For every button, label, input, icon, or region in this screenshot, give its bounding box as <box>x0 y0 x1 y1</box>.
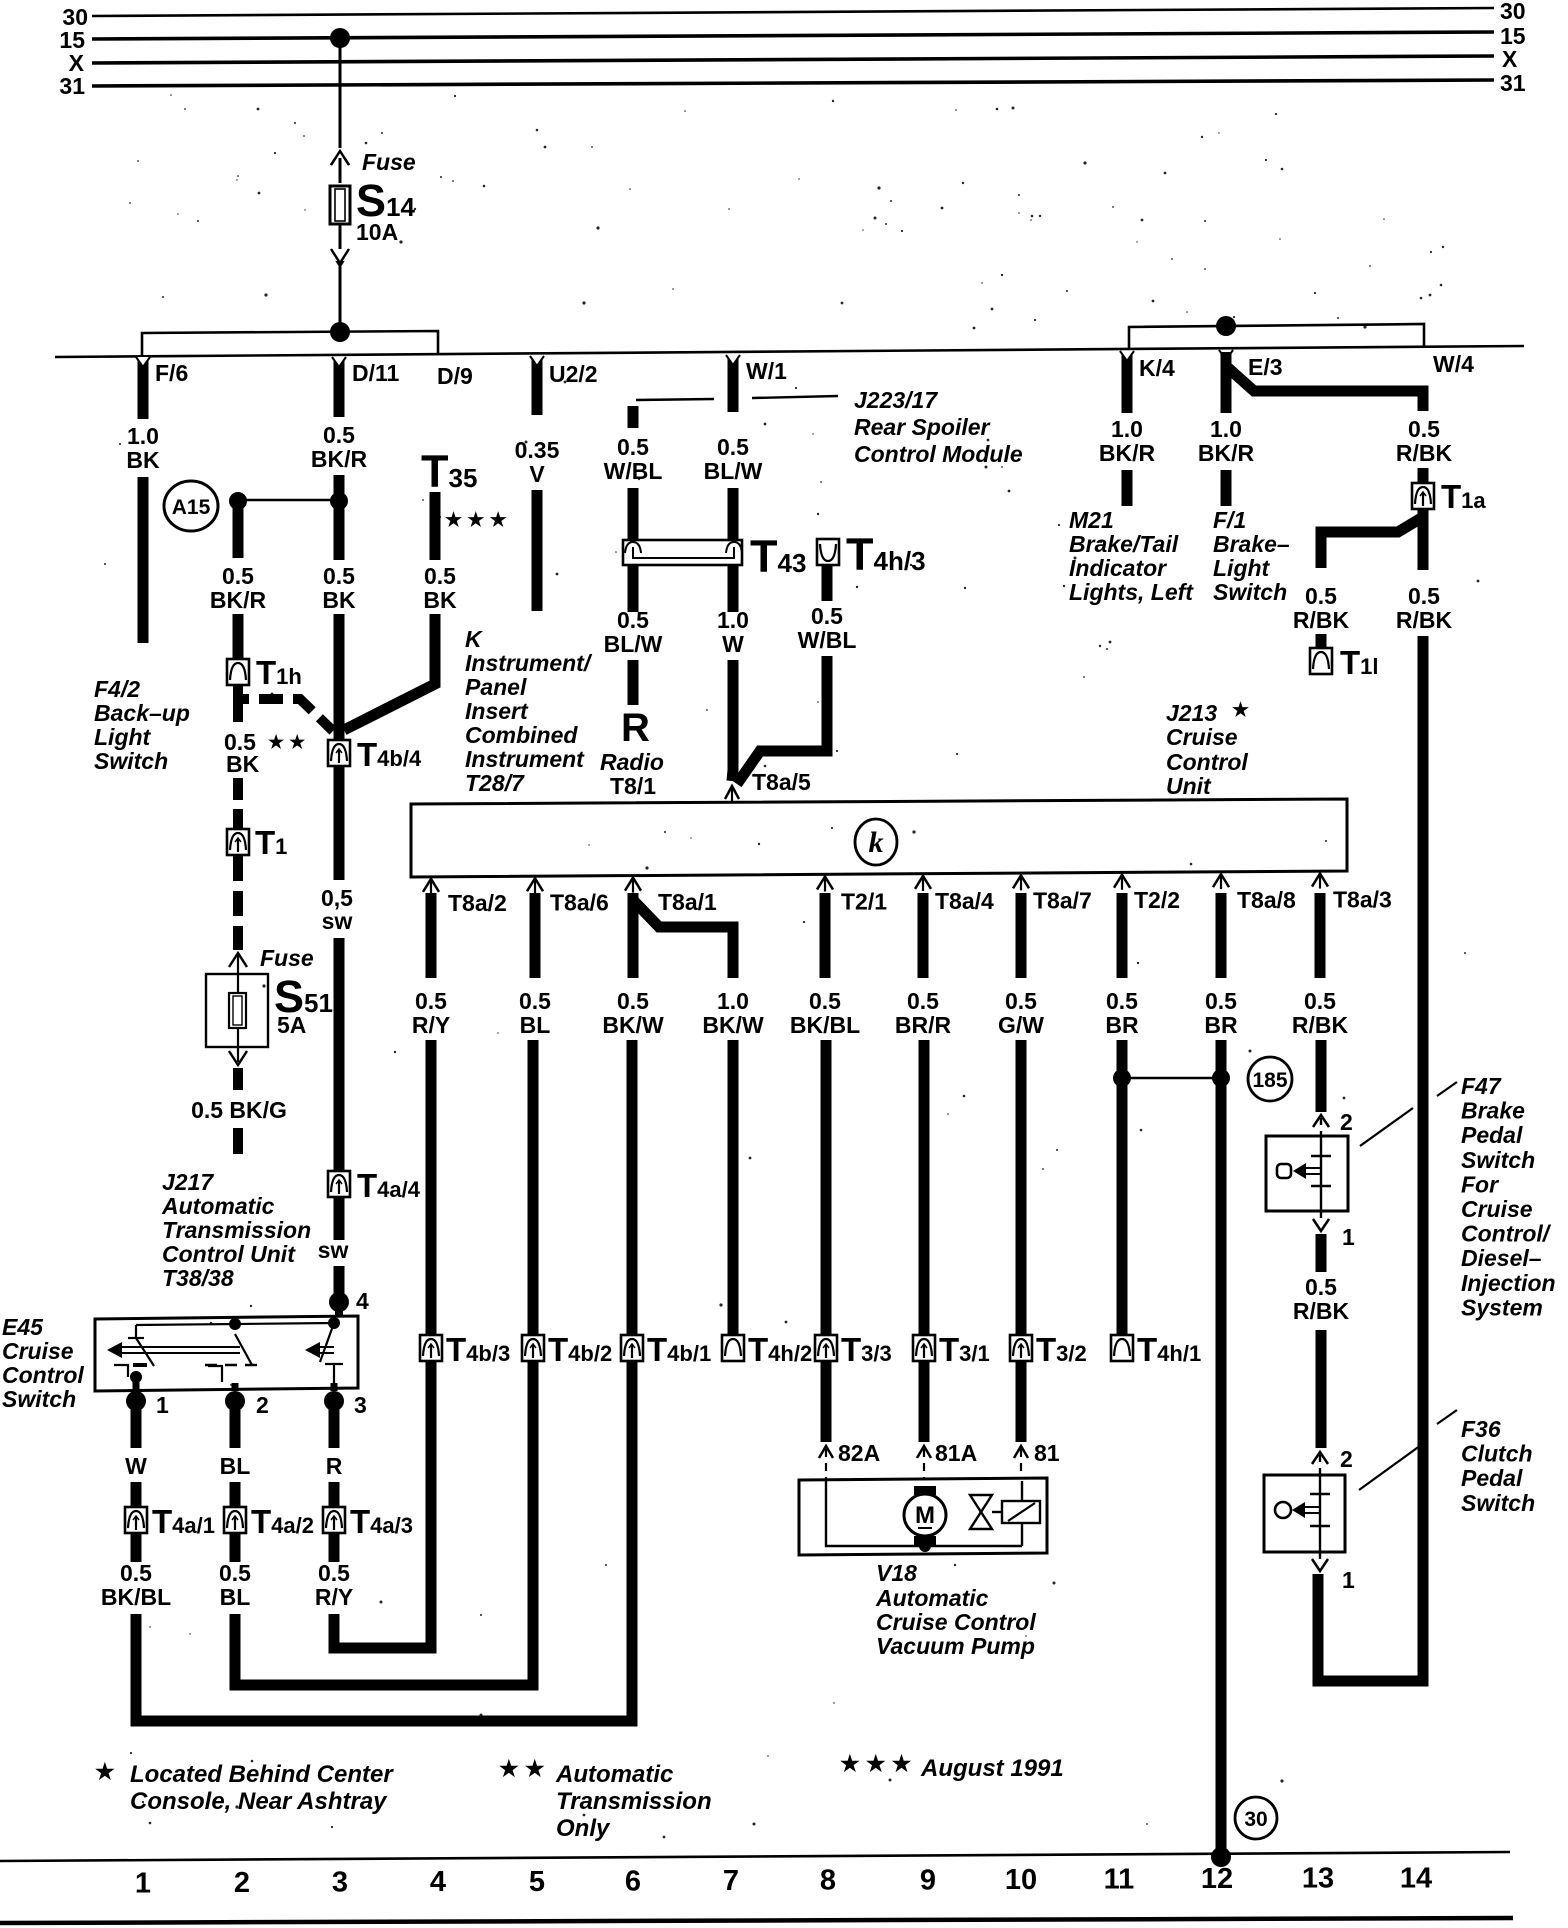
terminal T8a/1 of J213 <box>625 878 641 891</box>
svg-text:10A: 10A <box>356 219 398 245</box>
connector T4b/4 <box>328 740 350 766</box>
bus bracket right <box>1129 324 1424 349</box>
wire W/BL to T43 <box>628 488 639 541</box>
dashed wire below T1h <box>233 699 243 722</box>
wire stub E/3 <box>1221 359 1232 413</box>
terminal W/1 <box>728 357 739 412</box>
svg-text:Automatic: Automatic <box>555 1761 673 1788</box>
arrow above fuse S14 <box>331 151 349 165</box>
svg-text:13: 13 <box>1302 1863 1334 1895</box>
svg-text:T8a/5: T8a/5 <box>752 769 811 795</box>
F47 pushbutton symbol <box>1277 1164 1291 1178</box>
svg-text:1.0: 1.0 <box>1210 416 1242 442</box>
wire U2/2 to instrument panel <box>532 490 543 611</box>
circle 185 <box>1248 1057 1292 1101</box>
svg-text:7: 7 <box>723 1865 739 1897</box>
connector T4h/3 <box>817 539 839 565</box>
svg-text:9: 9 <box>920 1864 936 1896</box>
svg-text:3: 3 <box>354 1392 367 1418</box>
svg-text:BK/R: BK/R <box>1099 440 1156 466</box>
svg-text:0.5: 0.5 <box>1005 988 1037 1014</box>
connector T4h/2 <box>722 1335 744 1361</box>
svg-text:Panel: Panel <box>465 674 527 700</box>
svg-text:k: k <box>869 826 884 859</box>
wire BL from J213 at x535 <box>530 893 541 978</box>
dashed wire to connector T1 <box>233 778 243 828</box>
wire branch T8a/1 to 1.0 BK/W <box>633 900 733 978</box>
clutch pedal switch F36 box <box>1264 1475 1345 1552</box>
svg-text:3: 3 <box>332 1867 348 1899</box>
wire E45 pin to T4a/1 <box>131 1401 142 1448</box>
svg-text:★: ★ <box>95 1759 115 1784</box>
wire BL/W to radio <box>628 660 639 705</box>
terminal T8a/8 of J213 <box>1213 874 1229 887</box>
svg-text:1: 1 <box>1342 1567 1355 1593</box>
leader line F36 <box>1359 1440 1428 1490</box>
svg-text:0.35: 0.35 <box>515 437 560 463</box>
arrow pin 2 of F36 <box>1312 1452 1328 1464</box>
connector T1 <box>227 829 249 855</box>
svg-text:M: M <box>915 1502 935 1529</box>
arrow pin 1 of F47 <box>1320 1211 1322 1222</box>
ground junction dot <box>1211 1847 1231 1867</box>
connector T3/2 <box>1010 1335 1032 1361</box>
junction dot left <box>229 492 247 510</box>
wire stub K/4 to M21 <box>1122 470 1133 506</box>
svg-text:0.5: 0.5 <box>1305 583 1337 609</box>
svg-text:R/Y: R/Y <box>315 1584 353 1610</box>
svg-text:★: ★ <box>1232 700 1249 721</box>
bus bracket left <box>142 331 438 356</box>
connector T4h/1 <box>1111 1335 1133 1361</box>
svg-text:BK/R: BK/R <box>210 587 267 613</box>
svg-text:Instrument: Instrument <box>465 746 585 772</box>
svg-text:Insert: Insert <box>465 698 529 724</box>
svg-text:Control Module: Control Module <box>854 441 1023 467</box>
wire BK/BL from J213 at x825 <box>820 893 831 978</box>
svg-text:BL: BL <box>220 1453 251 1479</box>
svg-text:30: 30 <box>1500 0 1526 24</box>
dashed wire to J217 <box>233 1128 243 1156</box>
wire W/BL bend to T8a/5 <box>737 656 827 784</box>
arrow 81 <box>1014 1446 1028 1458</box>
wire stub from J223/17 <box>628 406 639 428</box>
svg-text:Control: Control <box>1166 749 1248 775</box>
svg-text:1.0: 1.0 <box>1111 416 1143 442</box>
solenoid of V18 <box>992 1511 1002 1513</box>
svg-text:W/4: W/4 <box>1433 351 1474 377</box>
svg-text:5A: 5A <box>277 1012 306 1038</box>
svg-text:Pedal: Pedal <box>1461 1122 1523 1148</box>
connector T43 <box>623 540 742 565</box>
svg-text:Control/: Control/ <box>1461 1221 1552 1247</box>
svg-text:Transmission: Transmission <box>556 1788 712 1815</box>
svg-text:BR/R: BR/R <box>895 1012 952 1038</box>
svg-text:T2/1: T2/1 <box>841 888 887 914</box>
svg-text:0.5: 0.5 <box>1205 988 1237 1014</box>
svg-text:J213: J213 <box>1166 700 1217 726</box>
wire stub E/3 to F/1 <box>1221 470 1232 506</box>
svg-text:R: R <box>326 1453 343 1479</box>
svg-text:Automatic: Automatic <box>875 1585 989 1611</box>
svg-text:Injection: Injection <box>1461 1270 1556 1296</box>
svg-text:Rear Spoiler: Rear Spoiler <box>854 414 991 440</box>
connector T3/3 <box>815 1335 837 1361</box>
F47 switch contact line <box>1320 1137 1322 1210</box>
wire below T4a/3 <box>329 1532 340 1562</box>
svg-text:BL/W: BL/W <box>704 458 763 484</box>
terminal K/4 <box>1122 353 1133 413</box>
svg-text:W/BL: W/BL <box>604 458 663 484</box>
connector T4a/3 <box>323 1507 345 1533</box>
svg-text:Unit: Unit <box>1166 773 1212 799</box>
terminal X rail <box>92 56 1494 63</box>
fuse S14 body <box>330 186 350 224</box>
svg-text:4: 4 <box>430 1866 446 1898</box>
svg-text:BK/R: BK/R <box>1198 440 1255 466</box>
terminal 15 rail <box>92 32 1494 39</box>
svg-text:Transmission: Transmission <box>162 1217 311 1243</box>
svg-text:0.5: 0.5 <box>717 434 749 460</box>
connector T4b/1 <box>621 1335 643 1361</box>
junction bar 185 <box>1122 1077 1221 1080</box>
wire 1.0 BK/W to connector T4h/2 <box>728 1040 739 1337</box>
svg-text:M21: M21 <box>1069 507 1114 533</box>
junction dot 185 left <box>1113 1069 1131 1087</box>
terminal T8a/3 of J213 <box>1312 874 1328 887</box>
svg-text:★ ★ ★: ★ ★ ★ <box>840 1751 912 1776</box>
terminal T8a/6 of J213 <box>527 878 543 891</box>
wire R/BK from J213 at x1320 <box>1315 893 1326 978</box>
svg-text:11: 11 <box>1104 1864 1135 1896</box>
terminal T8a/2 of J213 <box>423 879 439 892</box>
connector T4a/2 <box>224 1507 246 1533</box>
svg-text:BR: BR <box>1204 1012 1238 1038</box>
svg-text:1.0: 1.0 <box>127 423 159 449</box>
svg-text:Fuse: Fuse <box>362 149 416 175</box>
svg-text:Brake/Tail: Brake/Tail <box>1069 531 1179 557</box>
wire BK/BL to connector T3/3 <box>821 1040 832 1337</box>
svg-text:10: 10 <box>1005 1864 1037 1896</box>
svg-text:0.5: 0.5 <box>1408 583 1440 609</box>
wire BR to connector T4h/1 <box>1117 1040 1128 1337</box>
svg-text:X: X <box>1502 46 1518 72</box>
svg-text:Instrument/: Instrument/ <box>465 650 593 676</box>
svg-text:Diesel–: Diesel– <box>1461 1245 1542 1271</box>
svg-text:185: 185 <box>1252 1069 1287 1092</box>
junction on rail 15 <box>330 28 350 48</box>
svg-text:0.5: 0.5 <box>323 563 355 589</box>
outer U bend BK/BL <box>136 1716 632 1721</box>
svg-text:Automatic: Automatic <box>161 1193 275 1219</box>
middle U bend BL <box>235 1680 533 1685</box>
terminal 30 rail <box>92 8 1494 16</box>
junction dot right <box>330 492 348 510</box>
E45 middle switch <box>235 1334 252 1365</box>
wire to E45 pin 4 <box>334 1266 345 1302</box>
svg-text:K/4: K/4 <box>1139 355 1175 381</box>
svg-text:Brake–: Brake– <box>1213 531 1290 557</box>
terminal T8a/4 of J213 <box>915 876 931 889</box>
svg-text:1: 1 <box>156 1392 169 1418</box>
connector T1h <box>227 659 249 685</box>
svg-text:14: 14 <box>1400 1862 1432 1894</box>
terminal T2/2 of J213 <box>1114 875 1130 888</box>
E45 pin 1 <box>126 1391 146 1411</box>
wire to connector T1h <box>233 614 244 659</box>
svg-text:0.5: 0.5 <box>617 607 649 633</box>
wire F/6 to back-up light switch <box>138 477 149 643</box>
svg-text:R/BK: R/BK <box>1396 440 1453 466</box>
svg-text:Clutch: Clutch <box>1461 1441 1533 1467</box>
wire BR to ground rail <box>1216 1040 1227 1857</box>
terminal F/6 <box>138 359 149 419</box>
svg-text:0.5: 0.5 <box>1408 416 1440 442</box>
wire below T4a/1 <box>131 1532 142 1562</box>
svg-text:E45: E45 <box>2 1314 44 1340</box>
svg-text:0.5: 0.5 <box>907 988 939 1014</box>
svg-text:F4/2: F4/2 <box>94 676 140 702</box>
svg-text:Switch: Switch <box>1461 1490 1535 1516</box>
circled k symbol <box>855 819 897 865</box>
svg-text:F36: F36 <box>1461 1416 1501 1442</box>
E45 pin 4 <box>329 1292 349 1312</box>
arrow 81A <box>917 1446 931 1458</box>
svg-text:2: 2 <box>1340 1109 1353 1135</box>
svg-text:BK: BK <box>423 587 457 613</box>
svg-text:Indicator: Indicator <box>1069 555 1167 581</box>
svg-text:T2/2: T2/2 <box>1134 887 1180 913</box>
wire below T4b/1 <box>627 1360 638 1721</box>
wire from T35 <box>430 492 441 560</box>
svg-text:T38/38: T38/38 <box>162 1265 234 1291</box>
junction dot under motor <box>919 1540 931 1552</box>
E45 right lever switch <box>305 1342 320 1358</box>
svg-text:T28/7: T28/7 <box>465 770 525 796</box>
svg-text:BL/W: BL/W <box>604 631 663 657</box>
svg-text:1.0: 1.0 <box>717 607 749 633</box>
arrow above fuse S51 <box>229 953 247 967</box>
svg-text:Switch: Switch <box>94 748 168 774</box>
connector T4a/4 <box>328 1171 350 1197</box>
connector T4b/2 <box>522 1335 544 1361</box>
svg-text:0.5: 0.5 <box>809 988 841 1014</box>
wire G/W to connector T3/2 <box>1016 1040 1027 1337</box>
svg-text:2: 2 <box>1340 1446 1353 1472</box>
svg-text:D/11: D/11 <box>352 360 400 386</box>
svg-text:W: W <box>722 631 744 657</box>
wire below T3/2 to 81 <box>1016 1360 1027 1442</box>
svg-text:BL: BL <box>220 1584 251 1610</box>
svg-text:Lights, Left: Lights, Left <box>1069 579 1194 605</box>
svg-text:Fuse: Fuse <box>260 945 314 971</box>
svg-text:4: 4 <box>356 1288 369 1314</box>
junction fuse feed on bus bracket <box>330 322 350 342</box>
dashed wire T1 to fuse S51 <box>233 856 243 950</box>
wire E45 pin to T4a/2 <box>230 1401 241 1448</box>
wire BK/W from J213 at x633 <box>628 893 639 978</box>
svg-text:Console, Near Ashtray: Console, Near Ashtray <box>130 1788 388 1815</box>
svg-text:W: W <box>125 1453 147 1479</box>
svg-text:0.5: 0.5 <box>219 1560 251 1586</box>
wire below F47 <box>1316 1234 1327 1272</box>
bus rail <box>55 346 1524 357</box>
F36 pushbutton symbol <box>1275 1502 1291 1518</box>
svg-text:Switch: Switch <box>1213 579 1287 605</box>
wire below T4b/3 <box>426 1360 437 1648</box>
svg-text:0.5: 0.5 <box>519 988 551 1014</box>
svg-text:82A: 82A <box>838 1440 880 1466</box>
svg-text:Cruise: Cruise <box>1461 1196 1533 1222</box>
wire BR from J213 at x1221 <box>1216 893 1227 978</box>
connector T1a <box>1412 483 1434 509</box>
svg-text:0.5: 0.5 <box>318 1560 350 1586</box>
svg-text:Control: Control <box>2 1362 84 1388</box>
svg-text:Brake: Brake <box>1461 1098 1525 1124</box>
svg-text:BL: BL <box>520 1012 551 1038</box>
wire below T4a/2 <box>230 1532 241 1562</box>
svg-text:Cruise: Cruise <box>2 1338 74 1364</box>
wire from fuse S14 to bus <box>339 224 342 331</box>
svg-text:0.5: 0.5 <box>323 422 355 448</box>
wire below T4b/4 <box>334 766 345 880</box>
svg-text:31: 31 <box>59 73 85 99</box>
wire sw to T4a/4 <box>334 938 345 1172</box>
wire R/BK to brake pedal switch <box>1316 1040 1327 1112</box>
junction dot 185 right <box>1212 1069 1230 1087</box>
arrow T8a/5 into cruise unit <box>725 786 739 799</box>
cruise control switch E45 box <box>95 1316 358 1391</box>
svg-text:BK/BL: BK/BL <box>790 1012 860 1038</box>
circle 30 ground <box>1235 1797 1277 1839</box>
wire 81 to solenoid <box>1021 1481 1023 1501</box>
valve symbol of V18 <box>970 1495 992 1512</box>
svg-text:0.5: 0.5 <box>811 603 843 629</box>
arrow pin 1 of F36 <box>1319 1552 1321 1562</box>
terminal U2/2 <box>532 358 543 415</box>
dashed wire below S51 <box>233 1068 243 1096</box>
wire below T3/3 to 82A <box>821 1360 832 1442</box>
wire G/W from J213 at x1021 <box>1016 893 1027 978</box>
svg-text:8: 8 <box>820 1865 836 1897</box>
svg-text:Switch: Switch <box>2 1386 76 1412</box>
E45 pin 3 <box>324 1391 344 1411</box>
svg-text:G/W: G/W <box>998 1012 1044 1038</box>
wire stub below T4h/3 <box>822 565 833 601</box>
svg-text:sw: sw <box>318 1237 349 1263</box>
svg-text:A15: A15 <box>172 496 211 519</box>
svg-text:Light: Light <box>1213 555 1271 581</box>
F36 switch contact line <box>1319 1476 1321 1551</box>
wire BL to middle bend <box>230 1614 241 1685</box>
svg-text:R/Y: R/Y <box>412 1012 450 1038</box>
arrow below fuse S51 <box>229 1051 247 1065</box>
junction on bus bracket right <box>1216 316 1236 336</box>
svg-text:Back–up: Back–up <box>94 700 190 726</box>
E45 pin 2 <box>225 1391 245 1411</box>
junction bar A15 <box>238 499 339 502</box>
bottom border <box>0 1918 1513 1923</box>
svg-text:BK/BL: BK/BL <box>101 1584 171 1610</box>
svg-text:R/BK: R/BK <box>1292 1012 1349 1038</box>
svg-text:F/6: F/6 <box>155 360 188 386</box>
inner U bend R/Y <box>334 1643 431 1648</box>
cruise control unit J213 box <box>411 799 1347 877</box>
svg-text:BK: BK <box>226 751 260 777</box>
svg-text:For: For <box>1461 1171 1499 1197</box>
wire below T43 right <box>728 565 739 612</box>
svg-text:T8a/2: T8a/2 <box>448 890 507 916</box>
svg-text:Cruise: Cruise <box>1166 724 1238 750</box>
wire T1a branch to T1l <box>1321 509 1423 568</box>
terminal T2/1 of J213 <box>817 877 833 890</box>
leader line F47 <box>1360 1108 1413 1146</box>
svg-text:★ ★: ★ ★ <box>268 732 306 752</box>
svg-text:R/BK: R/BK <box>1293 607 1350 633</box>
terminal T8a/7 of J213 <box>1013 875 1029 888</box>
svg-text:Switch: Switch <box>1461 1147 1535 1173</box>
arrow below fuse S14 <box>331 252 349 266</box>
wire D/11 to T4b/4 <box>334 614 345 740</box>
wire R/BK down right side <box>1418 636 1429 1681</box>
U bend F36 to R/BK <box>1318 1676 1423 1681</box>
wire R/Y to inner bend <box>329 1614 340 1648</box>
wire BR/R from J213 at x923 <box>918 893 929 978</box>
connector T4b/3 <box>420 1335 442 1361</box>
wire inside V18 from 82A <box>826 1481 1022 1546</box>
wire BL to connector T4b/2 <box>528 1040 539 1337</box>
svg-text:0.5: 0.5 <box>617 988 649 1014</box>
wire R/Y from J213 at x431 <box>426 893 437 978</box>
wire R/Y to connector T4b/3 <box>426 1040 437 1337</box>
terminal D/11 <box>334 359 345 417</box>
svg-text:W/1: W/1 <box>746 358 787 384</box>
svg-text:★ ★: ★ ★ <box>499 1756 545 1781</box>
svg-text:81A: 81A <box>935 1440 977 1466</box>
svg-text:1.0: 1.0 <box>717 988 749 1014</box>
terminal E/3 <box>1219 350 1233 360</box>
svg-text:T8a/1: T8a/1 <box>658 889 717 915</box>
wire BR from J213 at x1122 <box>1117 893 1128 978</box>
svg-text:Radio: Radio <box>600 749 664 775</box>
wire E/3 branch to R/BK <box>1226 352 1423 411</box>
svg-text:T8a/4: T8a/4 <box>935 888 994 914</box>
svg-text:0.5: 0.5 <box>222 563 254 589</box>
svg-text:Located Behind Center: Located Behind Center <box>130 1761 394 1788</box>
wire branch BK/R to T1h <box>233 501 244 558</box>
svg-text:V18: V18 <box>876 1560 917 1586</box>
fuse S51 box <box>206 974 268 1047</box>
svg-text:BR: BR <box>1105 1012 1139 1038</box>
svg-text:Pedal: Pedal <box>1461 1465 1523 1491</box>
wire below F36 <box>1313 1574 1324 1681</box>
E45 left lever switch <box>135 1325 137 1338</box>
wire E45 pin to T4a/3 <box>329 1401 340 1448</box>
wire stub to T1l <box>1316 634 1327 649</box>
svg-text:U2/2: U2/2 <box>549 361 598 387</box>
leader line J223/17 <box>636 399 714 400</box>
svg-text:J217: J217 <box>162 1169 214 1195</box>
svg-text:D/9: D/9 <box>437 363 473 389</box>
svg-text:2: 2 <box>256 1392 269 1418</box>
circle A15 <box>164 481 218 531</box>
wire W to T8a/5 <box>732 660 733 781</box>
scan speckle texture <box>104 94 1479 1838</box>
wire BK/BL to outer bend <box>131 1614 142 1721</box>
svg-text:T8/1: T8/1 <box>610 773 656 799</box>
wire D/11 down to junction <box>334 475 345 560</box>
svg-text:Vacuum Pump: Vacuum Pump <box>876 1633 1035 1659</box>
